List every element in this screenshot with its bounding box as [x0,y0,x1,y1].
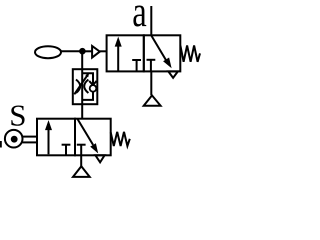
flow control through line [81,69,83,104]
check valve bypass path upper [82,73,93,85]
air supply source under valve a [144,95,161,105]
wire pilot triangle to valve a [100,50,107,52]
valve s 3/2-way left box [37,119,75,156]
valve a right box exhaust arrow A to R [151,36,171,69]
check valve bypass path lower [82,92,93,100]
roller actuator circle of valve s [5,130,23,148]
valve s right box blocked port T [77,145,86,156]
valve a left box flow arrow P to A [115,37,122,71]
throttle arc right [84,80,88,94]
valve a 3/2-way right box [144,35,181,71]
valve s left box flow arrow P to A [45,120,52,154]
wire reservoir to junction [61,50,82,52]
roller stem lower line [23,141,38,143]
valve a 3/2-way left box [107,35,144,71]
valve s return spring [111,132,130,146]
wire P supply of valve s down [80,155,82,166]
label S (valve s name) [9,97,26,132]
wire flow control down to valve s [81,104,83,119]
throttle arc left [76,80,80,94]
air reservoir (ellipse) [35,46,61,58]
svg-text:a: a [132,0,146,36]
valve a exhaust triangle at R port [168,71,178,77]
valve a left box blocked port T [132,60,141,71]
throttle adjust arrow [74,73,89,95]
wire A output of valve a going up [150,6,152,35]
air supply source under valve s [73,166,90,177]
cropped wire mark at left edge [0,141,2,148]
check valve seat [89,81,96,85]
svg-text:S: S [9,97,26,132]
pilot wire from junction to pilot triangle [82,50,92,52]
wire junction down to flow control [81,51,83,69]
valve s left box blocked port T [62,145,71,156]
valve s exhaust triangle at R port [95,155,104,162]
pilot triangle of valve a [92,46,100,58]
wire P supply of valve a down [150,71,152,95]
valve a return spring [180,45,200,61]
roller stem upper line [23,136,38,138]
valve a right box blocked port T [147,60,156,72]
junction node dot [79,48,86,55]
one-way flow control valve body [73,69,98,104]
valve s 3/2-way right box [75,119,111,156]
roller axle dot [11,136,18,143]
valve s right box exhaust arrow A to R [78,119,99,154]
label a (valve a name) [132,0,146,36]
check valve ball [90,85,97,92]
